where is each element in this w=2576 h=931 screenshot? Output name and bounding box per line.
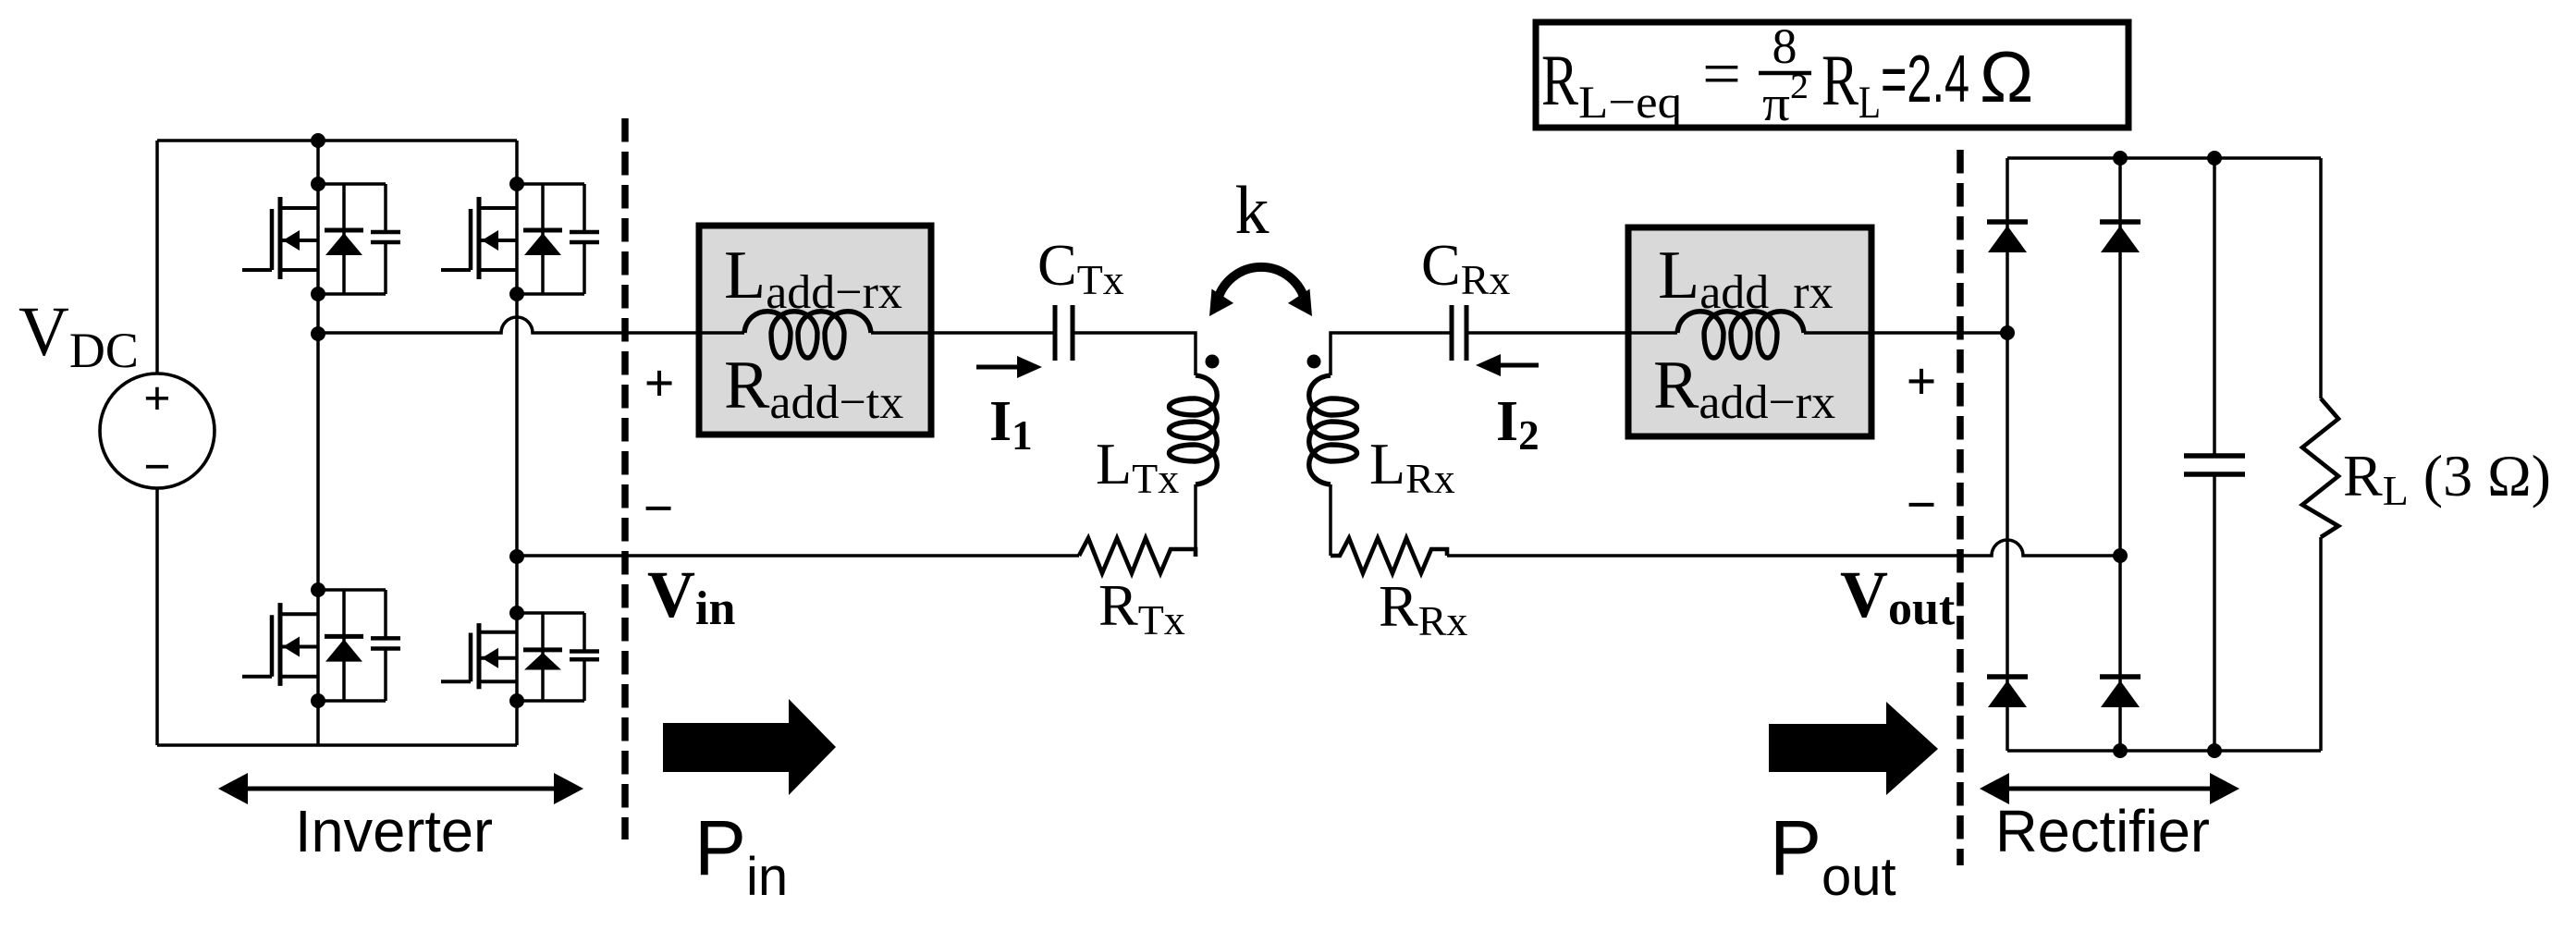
resistor R_L xyxy=(2302,398,2338,537)
transistor Q1 (top-left) with body diode and parallel capacitor xyxy=(242,177,400,301)
svg-text:L: L xyxy=(1858,76,1881,128)
double arrow span Inverter xyxy=(218,773,583,804)
svg-text:Rectifier: Rectifier xyxy=(1995,798,2210,864)
current arrow I_1 xyxy=(976,356,1042,378)
wire C_Tx to L_Tx top corner xyxy=(1073,333,1196,375)
dashed boundary line between receiver tank and rectifier xyxy=(1957,150,1964,865)
wire box 2 to rectifier leg A xyxy=(1871,331,2007,335)
label R_L (3 Ohm) xyxy=(2343,443,2551,514)
node leg B / bottom conductor junction xyxy=(2113,548,2128,563)
svg-text:+: + xyxy=(143,373,171,425)
dashed boundary line between inverter and resonant tank xyxy=(621,118,629,839)
block L_add-rx / R_add-tx (gray box with series inductor) xyxy=(699,226,931,435)
label R_Tx xyxy=(1098,572,1185,643)
label R_Rx xyxy=(1379,573,1467,644)
inductor L_Rx coil xyxy=(1309,375,1357,484)
wire node B to R_Tx (bottom conductor) xyxy=(517,554,1079,557)
node cap leg bottom rail junction xyxy=(2207,743,2222,758)
capacitor C_Tx xyxy=(1055,305,1073,361)
label L_Rx xyxy=(1369,431,1455,502)
diode D2 (leg B upper) xyxy=(2100,222,2141,252)
wire right leg upper segment xyxy=(515,141,519,184)
node B inverter right-leg output xyxy=(509,549,524,564)
block L_add_rx / R_add-rx (gray box with series inductor) xyxy=(1628,227,1871,436)
svg-text:=: = xyxy=(1702,39,1741,110)
current arrow I_2 xyxy=(1476,354,1539,376)
label V_out xyxy=(1840,557,1956,635)
label minus (V_in negative) xyxy=(643,478,673,538)
wire left leg upper segment xyxy=(316,141,320,184)
label C_Tx xyxy=(1037,232,1124,303)
wire R_L leg lower xyxy=(2319,537,2323,751)
wire rectifier leg B xyxy=(2118,158,2122,751)
inductor L_add coil (box 2) xyxy=(1628,312,1871,358)
inductor L_Tx coil xyxy=(1170,375,1218,484)
wire L_Rx bottom segment xyxy=(1329,484,1332,556)
resistor R_Tx xyxy=(1079,538,1196,573)
label Inverter xyxy=(295,798,493,864)
svg-text:8: 8 xyxy=(1773,18,1797,74)
svg-text:Ω: Ω xyxy=(1980,36,2033,117)
wire V_DC negative lead xyxy=(155,488,159,745)
diode D1 (leg A upper) xyxy=(1987,222,2028,252)
transistor Q4 (bottom-right) with body diode and parallel capacitor xyxy=(441,606,599,708)
capacitor C_Rx xyxy=(1452,305,1466,361)
label R_add-tx xyxy=(724,348,903,429)
svg-text:R: R xyxy=(1822,40,1858,120)
wire node A to C_Tx (top conductor, hops over right leg) xyxy=(318,317,699,333)
label I_2 xyxy=(1496,390,1539,459)
wire right leg mid segment xyxy=(515,294,519,613)
label L_add-rx xyxy=(724,238,902,319)
wire R_L leg upper xyxy=(2319,158,2323,398)
transistor Q2 (top-right) with body diode and parallel capacitor xyxy=(441,177,599,301)
node top rail / left leg junction xyxy=(311,133,325,148)
svg-text:−: − xyxy=(1906,474,1936,534)
wire bottom rail of inverter xyxy=(157,743,517,747)
label C_Rx xyxy=(1421,232,1510,303)
label P_out xyxy=(1770,804,1896,907)
diode D3 (leg A lower) xyxy=(1987,677,2028,707)
svg-text:−: − xyxy=(643,478,673,538)
wire rectifier leg A xyxy=(2006,158,2009,751)
svg-text:k: k xyxy=(1235,173,1270,249)
svg-text:+: + xyxy=(644,353,674,413)
power flow arrow P_out xyxy=(1769,702,1938,795)
node transformer dot (Rx side) xyxy=(1307,355,1321,369)
label L_Tx xyxy=(1096,431,1179,502)
node leg A / top conductor junction xyxy=(2000,325,2015,340)
wire R_Rx to rectifier (bottom conductor, hops over leg A) xyxy=(1447,540,2120,556)
label + (V_in positive) xyxy=(644,353,674,413)
wire left leg mid segment xyxy=(316,294,320,590)
svg-text:π: π xyxy=(1762,76,1790,131)
diode D4 (leg B lower) xyxy=(2100,677,2141,707)
wire rectifier top rail xyxy=(2007,156,2321,160)
coupling arc k (double-headed) xyxy=(1209,267,1312,316)
svg-text:=2.4: =2.4 xyxy=(1881,43,1969,116)
svg-text:R: R xyxy=(1541,40,1578,120)
svg-text:RL (3 Ω): RL (3 Ω) xyxy=(2343,443,2551,514)
svg-text:2: 2 xyxy=(1790,67,1809,106)
node cap leg top rail junction xyxy=(2207,151,2222,165)
double arrow span Rectifier xyxy=(1980,773,2239,804)
resistor R_Rx xyxy=(1331,538,1447,573)
voltage source V_DC xyxy=(100,373,215,494)
wire top rail of inverter xyxy=(157,139,517,142)
wire L_Rx top corner to C_Rx xyxy=(1331,333,1452,375)
label V_in xyxy=(647,557,735,635)
node A inverter left-leg output xyxy=(311,326,325,341)
label R_add-rx xyxy=(1653,348,1835,429)
label Rectifier xyxy=(1995,798,2210,864)
wire rectifier bottom rail xyxy=(2007,749,2321,753)
wire C_Rx to L_add box 2 xyxy=(1466,331,1628,335)
label P_in xyxy=(694,804,788,907)
wire right leg lower segment xyxy=(515,701,519,745)
svg-text:+: + xyxy=(1906,351,1936,411)
wire left leg lower segment xyxy=(316,701,320,745)
wire V_DC positive lead xyxy=(155,141,159,374)
wire L_Tx bottom segment xyxy=(1194,484,1197,556)
node transformer dot (Tx side) xyxy=(1206,355,1220,369)
capacitor C_f (output filter) xyxy=(2184,456,2245,474)
equation box R_L-eq = 8/pi^2 R_L = 2.4 Ohm xyxy=(1536,18,2128,131)
label + (V_out positive) xyxy=(1906,351,1936,411)
inductor L_add coil (box 1) xyxy=(699,312,931,358)
wire filter capacitor leg lower xyxy=(2213,474,2216,751)
wire top conductor through L_add box to C_Tx xyxy=(931,331,1055,335)
label V_DC xyxy=(18,293,139,378)
node leg B top rail junction xyxy=(2113,151,2128,165)
svg-text:L−eq: L−eq xyxy=(1578,76,1682,128)
label minus (V_out negative) xyxy=(1906,474,1936,534)
power flow arrow P_in xyxy=(663,699,836,795)
node leg B bottom rail junction xyxy=(2113,743,2128,758)
wire filter capacitor leg upper xyxy=(2213,158,2216,456)
label L_add_rx xyxy=(1658,238,1834,319)
label k xyxy=(1235,173,1270,249)
transistor Q3 (bottom-left) with body diode and parallel capacitor xyxy=(242,582,400,708)
svg-text:Inverter: Inverter xyxy=(295,798,493,864)
label I_1 xyxy=(989,390,1033,459)
svg-text:−: − xyxy=(143,441,171,494)
